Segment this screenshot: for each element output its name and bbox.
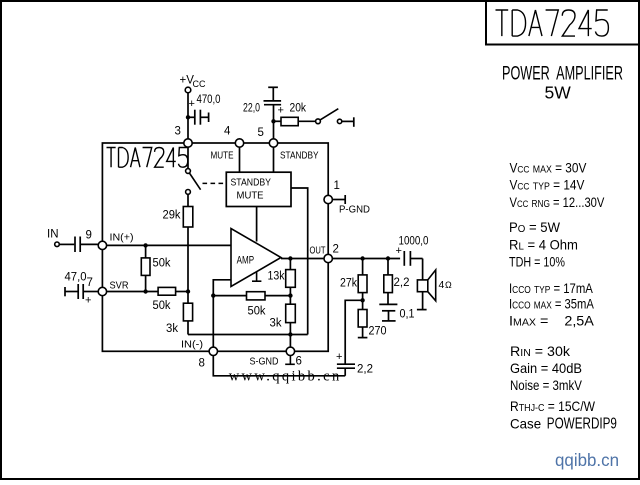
svg-text:STANDBY: STANDBY [231,177,272,189]
svg-text:5W: 5W [545,83,572,103]
svg-text:+: + [85,295,91,307]
wire SVR [107,291,159,293]
resistor R7 13k [268,259,296,296]
pin 6 [250,347,302,367]
wire bus to pin6 [289,335,291,348]
svg-text:4: 4 [439,279,445,291]
svg-text:1000,0: 1000,0 [399,236,429,248]
resistor R6 50k feedback [213,292,290,318]
resistor R9 27k [340,259,367,301]
svg-text:22,0: 22,0 [243,103,260,115]
pin 8 [181,339,218,370]
svg-text:27k: 27k [340,278,357,290]
wire AMP out [281,258,324,260]
pin 5 [258,127,278,147]
svg-text:47,0: 47,0 [65,272,87,284]
capacitor C6 2,2 feedback [336,351,373,376]
pin 1 [324,180,340,204]
svg-text:TDH = 10%: TDH = 10% [509,254,565,269]
svg-text:ICCO MAX = 35mA: ICCO MAX = 35mA [509,297,595,312]
svg-text:Case POWERDIP9: Case POWERDIP9 [510,415,617,432]
title box TDA7245 [486,1,639,45]
svg-text:Gain = 40dB: Gain = 40dB [510,361,582,376]
wire 29k down to node X [187,227,189,292]
svg-text:MUTE: MUTE [211,150,234,162]
wire IN(+) [107,244,231,246]
ground (amp) [252,272,261,282]
svg-text:9: 9 [86,230,92,242]
svg-text:3k: 3k [270,318,282,330]
svg-text:5: 5 [258,127,264,139]
capacitor C5 1000,0 [396,236,429,266]
resistor R3 50k vertical [141,245,170,291]
node 27k [360,256,364,260]
svg-text:470,0: 470,0 [197,94,221,106]
svg-text:50k: 50k [153,258,171,270]
svg-text:VCC RNG = 12...30V: VCC RNG = 12...30V [510,195,606,210]
node 13k/50k/3k [288,293,292,297]
svg-text:20k: 20k [290,103,307,115]
node fb [211,293,215,297]
node 27k/270 [360,298,364,302]
svg-text:MUTE: MUTE [237,190,264,202]
svg-text:2,2: 2,2 [357,364,373,376]
wire fb tap [345,300,362,363]
pin 4 [224,126,244,148]
svg-text:VCC MAX = 30V: VCC MAX = 30V [510,161,587,176]
capacitor C1 470,0 [188,94,221,125]
svg-text:PO = 5W: PO = 5W [509,220,560,235]
svg-text:www.qqibb.cn: www.qqibb.cn [229,369,340,385]
wire pin5 to block [273,147,275,172]
svg-text:SVR: SVR [110,280,129,292]
svg-text:CC: CC [193,79,206,89]
resistor R11 2,2 zobel [384,259,410,304]
resistor R5 3k [166,292,193,336]
svg-text:STANDBY: STANDBY [280,150,319,162]
svg-text:50k: 50k [153,300,171,312]
svg-text:RIN = 30k: RIN = 30k [510,343,570,359]
pin 2 [310,244,339,263]
svg-text:8: 8 [199,358,205,370]
svg-text:IN(+): IN(+) [110,232,134,244]
svg-text:0,1: 0,1 [400,309,415,321]
capacitor C7 0,1 [379,304,414,321]
svg-text:Noise = 3mkV: Noise = 3mkV [510,378,583,393]
wire pin8 bottom [213,356,345,376]
svg-text:13k: 13k [268,270,285,282]
capacitor C3 input [60,237,99,253]
svg-text:4: 4 [224,126,231,138]
svg-text:3k: 3k [166,323,178,335]
node out/13k [288,256,292,260]
IC U1 TDA7245 box [102,143,328,351]
spec table [509,161,617,433]
svg-text:Ω: Ω [445,280,452,290]
wire block bottom to AMP [256,207,258,242]
resistor R2 29k [163,194,193,227]
P-GND terminal [332,195,370,216]
pin 7 [87,277,129,296]
speaker LS1 4ohm [417,259,452,310]
svg-text:qqibb.cn: qqibb.cn [555,450,619,470]
svg-text:S-GND: S-GND [250,356,279,368]
node IN(+)/50k [143,243,147,247]
wire block right output [291,188,308,335]
svg-text:IN(-): IN(-) [181,339,203,351]
switch S2 mute [186,147,201,194]
wire pin4 to block [239,147,241,172]
wire Vcc to pin3 [187,93,189,139]
svg-text:+: + [189,98,195,110]
resistor R1 20k [274,103,316,126]
svg-text:29k: 29k [163,210,181,222]
pin 3 [175,126,193,148]
switch S1 standby [316,109,354,127]
svg-text:P-GND: P-GND [339,204,370,216]
svg-text:OUT: OUT [310,245,326,257]
dashed link to standby/mute block [203,182,227,184]
capacitor C4 47,0 [65,272,99,307]
+Vcc terminal [180,75,206,93]
resistor R10 270 [358,300,387,337]
op-amp U1 AMP [231,229,281,287]
ground (pin 6) [285,356,295,365]
svg-text:+: + [336,351,342,363]
node pin5/C2/R20k [271,119,275,123]
svg-text:VCC TYP = 14V: VCC TYP = 14V [510,178,585,193]
node SVR/50k [143,289,147,293]
svg-text:3: 3 [175,126,181,138]
IN terminal [47,229,59,247]
capacitor C2 22,0 [243,87,284,139]
svg-text:+: + [278,105,284,117]
svg-text:6: 6 [296,356,302,368]
svg-text:50k: 50k [248,306,266,318]
STANDBY MUTE block U2 [226,172,291,206]
svg-text:2,2: 2,2 [394,277,410,289]
svg-text:270: 270 [369,326,387,338]
svg-text:AMP: AMP [237,255,255,267]
svg-text:POWER AMPLIFIER: POWER AMPLIFIER [502,64,623,85]
node X (29k/50k/3k) [186,289,190,293]
node zobel [386,256,390,260]
pin 9 [86,230,134,250]
resistor R4 50k horizontal [153,287,189,312]
svg-text:7: 7 [87,277,93,289]
node bus/3k [288,332,292,336]
svg-text:2: 2 [333,244,339,256]
wire bottom internal bus [188,334,308,336]
svg-text:IN: IN [47,229,59,241]
wire pin2 to output network [332,258,400,260]
wire inverting input [213,280,231,347]
resistor R8 3k right [270,296,296,335]
node Vcc/C1 junction [186,115,190,119]
svg-text:1: 1 [334,180,340,192]
svg-text:ICCO TYP = 17mA: ICCO TYP = 17mA [509,281,593,296]
